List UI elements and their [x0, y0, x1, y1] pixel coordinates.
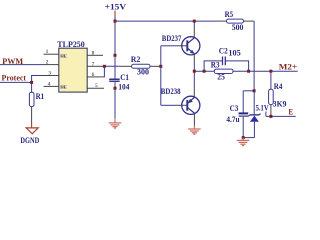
pin 7 — [87, 65, 102, 67]
svg-text:C1: C1 — [120, 73, 129, 82]
node Protect/R1 junction — [30, 81, 33, 84]
svg-text:3: 3 — [48, 71, 51, 77]
node pin5 junction — [114, 87, 117, 90]
pin 1 — [44, 53, 59, 55]
capacitor C1 — [114, 55, 116, 79]
node C2 right junction — [247, 70, 250, 73]
svg-text:BD237: BD237 — [162, 34, 182, 43]
svg-text:C2: C2 — [219, 46, 228, 55]
svg-text:C3: C3 — [230, 104, 239, 113]
wire zener node to C3 — [243, 90, 254, 92]
svg-text:R1: R1 — [36, 92, 45, 101]
svg-text:300: 300 — [137, 67, 149, 76]
svg-text:+15V: +15V — [105, 2, 127, 12]
wire output node M2+ line — [194, 70, 297, 72]
wire base node vertical — [160, 46, 162, 106]
wire PWM to pin 2 — [0, 64, 44, 66]
svg-text:R3: R3 — [211, 61, 220, 70]
svg-text:R4: R4 — [274, 82, 283, 91]
wire E stub — [265, 112, 267, 117]
wire base to BD238 — [161, 104, 176, 106]
zener diode D1 5.1V — [253, 91, 255, 115]
wire R1 to DGND — [31, 107, 33, 122]
node BD237 collector junction — [193, 20, 196, 23]
pin 2 — [44, 64, 59, 66]
svg-text:DGND: DGND — [20, 136, 39, 145]
wire base to BD237 — [161, 45, 176, 47]
wire Protect jog up to pin 3 — [32, 76, 41, 83]
wire BD237 collector — [193, 28, 195, 38]
resistor R3 — [214, 69, 233, 73]
wire junction down to R1 — [31, 82, 33, 92]
ground G1 — [109, 123, 121, 128]
power +15V stem — [114, 11, 116, 16]
capacitor C2 branch — [204, 61, 222, 71]
svg-text:E: E — [288, 107, 293, 117]
svg-text:500: 500 — [232, 23, 244, 32]
pin 8 — [87, 54, 103, 56]
svg-text:R2: R2 — [131, 55, 141, 64]
wire zener/C3 bottom to ground — [243, 137, 254, 139]
wire +15V vertical down to pin 8 — [114, 16, 116, 55]
node +15V rail junction — [114, 20, 117, 23]
ground DGND symbol — [26, 128, 38, 134]
resistor R1 — [29, 92, 34, 106]
node ground junction — [242, 136, 245, 139]
svg-text:1: 1 — [46, 49, 49, 55]
wire BD238 emitter — [193, 88, 195, 98]
capacitor C3 — [242, 91, 244, 113]
svg-text:7: 7 — [92, 61, 95, 67]
node emitters junction — [193, 70, 196, 73]
ground G3 — [237, 140, 249, 145]
component TLP250 U1 body — [59, 48, 87, 92]
resistor R4 — [270, 71, 272, 89]
wire BD237 emitter — [193, 54, 195, 62]
node pin8 junction — [114, 54, 117, 57]
svg-text:4: 4 — [48, 81, 51, 87]
svg-text:TLP250: TLP250 — [57, 40, 85, 49]
wire pin7 to pin6 bracket — [102, 66, 104, 77]
pin 5 — [87, 87, 104, 89]
svg-text:M2+: M2+ — [279, 62, 298, 72]
svg-text:5.1V: 5.1V — [256, 104, 269, 113]
wire pin7 to R2 — [104, 65, 120, 67]
svg-text:4.7u: 4.7u — [226, 115, 240, 124]
svg-text:105: 105 — [228, 48, 240, 57]
svg-text:R5: R5 — [225, 10, 234, 19]
node R4 top junction — [269, 70, 272, 73]
pin 6 — [87, 76, 102, 78]
wire pin5 node to ground — [114, 88, 116, 119]
node R4 bottom junction — [269, 115, 272, 118]
node pin7 junction — [103, 65, 106, 68]
ground G2 — [188, 129, 200, 134]
node C2 left junction — [203, 70, 206, 73]
pin 3 — [41, 75, 59, 77]
wire Protect horizontal — [0, 81, 32, 83]
svg-text:8: 8 — [92, 50, 95, 56]
svg-text:3K9: 3K9 — [273, 99, 287, 108]
resistor R5 — [217, 20, 227, 22]
svg-text:104: 104 — [118, 83, 129, 92]
node R2 / base junction — [159, 65, 162, 68]
svg-text:2: 2 — [46, 60, 49, 66]
svg-text:Protect: Protect — [2, 73, 27, 83]
node zener top junction — [253, 89, 256, 92]
svg-text:HE: HE — [60, 54, 67, 59]
resistor R2 — [121, 65, 132, 67]
svg-text:6: 6 — [92, 72, 95, 78]
svg-text:5: 5 — [95, 83, 98, 89]
svg-text:HE: HE — [60, 85, 67, 90]
svg-text:BD238: BD238 — [161, 87, 181, 96]
wire R5 to zener node vertical — [253, 21, 255, 91]
wire E line — [266, 115, 296, 117]
wire +15V rail horizontal — [115, 20, 217, 22]
pin 4 — [44, 85, 59, 87]
wire BD238 collector to ground — [193, 113, 195, 126]
svg-text:25: 25 — [217, 72, 225, 81]
